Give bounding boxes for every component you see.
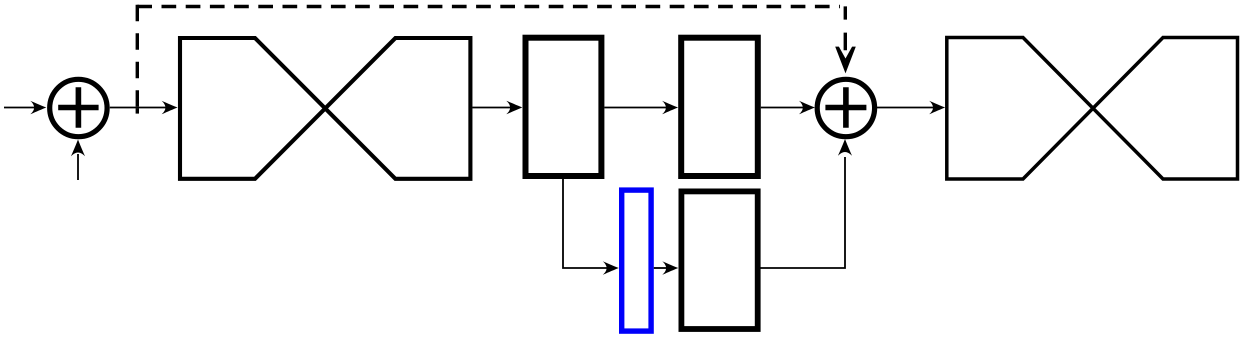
arrowhead into block B1 [506, 101, 522, 115]
wire S2 to deinterleaver P2 [877, 107, 935, 109]
dashed feedback tap nub below wire [136, 108, 139, 113]
arrowhead into deinterleaver P2 [929, 101, 945, 115]
wire P1 to block B1 [472, 107, 512, 109]
plus sign of S1 [58, 87, 98, 127]
arrowhead up into S1 [71, 140, 85, 157]
summing junction S2 circle [817, 79, 874, 136]
dashed feedback line (horizontal top) [137, 5, 840, 8]
wire from below into S1 [77, 154, 79, 180]
wire B3 to block B4 [654, 267, 668, 269]
arrowhead into blue block B3 [603, 261, 619, 275]
plus sign of S2 [825, 87, 866, 127]
wire B1 to block B2 [604, 107, 668, 109]
deinterleaver block P2 (bowtie) [947, 38, 1238, 180]
wire B4 to S2 (elbow up) [760, 157, 846, 268]
wire B1 down to blue block B3 (elbow) [563, 176, 608, 268]
arrowhead into summing junction S1 [30, 101, 46, 115]
arrowhead into block B4 [662, 261, 678, 275]
wire B2 to S2 [761, 107, 805, 109]
input wire [4, 107, 36, 109]
blue block B3 [622, 190, 651, 331]
dashed-line stealth arrowhead into S2 [835, 47, 856, 74]
wire S1 to interleaver P1 [110, 107, 167, 109]
arrowhead into interleaver P1 [162, 101, 178, 115]
interleaver block P1 (bowtie) [180, 38, 470, 179]
dashed feedback tap (vertical left) [136, 5, 139, 107]
block B2 [681, 38, 758, 176]
arrowhead into S2 [799, 101, 815, 115]
block B4 [681, 191, 757, 329]
arrowhead up into S2 [838, 139, 852, 156]
dashed feedback drop (vertical right) [844, 6, 847, 50]
summing junction S1 circle [50, 79, 107, 136]
block B1 [526, 38, 602, 176]
arrowhead into block B2 [662, 101, 678, 115]
